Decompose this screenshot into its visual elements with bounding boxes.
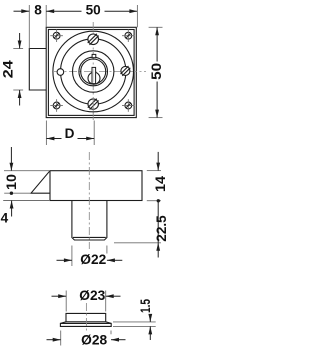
svg-text:Ø23: Ø23	[79, 288, 105, 303]
dimension 1.5 (bottom right)	[113, 299, 156, 340]
svg-text:Ø28: Ø28	[81, 332, 107, 347]
top view: lock case outer outline	[46, 27, 136, 117]
flange circle	[60, 39, 125, 104]
svg-text:8: 8	[34, 2, 42, 17]
middle view: cylinder body	[72, 201, 107, 241]
middle view: plate body	[50, 171, 142, 201]
bottom view: rosette base	[60, 323, 111, 326]
cylinder ring inner circle	[81, 59, 106, 84]
middle view: cylinder bottom inner line	[73, 236, 106, 238]
svg-text:10: 10	[4, 174, 19, 190]
screw hole bottom-right	[122, 99, 135, 112]
cylinder ring outer circle	[79, 57, 108, 86]
svg-text:22.5: 22.5	[154, 215, 167, 242]
screw hole top-center	[88, 34, 99, 45]
screw hole right-center	[121, 66, 131, 76]
svg-text:14: 14	[153, 176, 167, 192]
bottom view: rosette bottom edge line	[66, 321, 106, 323]
side strip (8 mm flange)	[29, 49, 46, 91]
top notch rectangle	[92, 54, 96, 57]
cover plate circle	[53, 31, 134, 112]
dimension 50 (top)	[46, 2, 137, 27]
dimension Ø28 (bottom)	[47, 331, 126, 348]
middle view: wedge (latch nose)	[31, 171, 50, 194]
dimension Ø23 (bottom view top)	[52, 288, 121, 311]
svg-text:4: 4	[1, 210, 9, 225]
keyhole slot rectangle	[92, 67, 96, 83]
dimension 8 (top left)	[14, 2, 47, 48]
svg-text:D: D	[65, 126, 75, 141]
middle view: vertical centerline	[88, 152, 90, 249]
top view: lock case inner outline	[48, 30, 134, 116]
keyway circle	[88, 72, 100, 84]
bottom view: vertical centerline	[85, 303, 87, 331]
dimension Ø22 (below cylinder)	[57, 246, 123, 268]
svg-text:1.5: 1.5	[138, 299, 153, 313]
svg-text:50: 50	[86, 2, 101, 17]
bottom view: rosette cylinder	[66, 313, 106, 321]
svg-text:50: 50	[149, 63, 164, 80]
bottom view: rosette cone flare	[60, 322, 111, 324]
dimension 22.5 (middle right lower)	[114, 201, 169, 258]
small hole left-center	[57, 69, 64, 76]
svg-text:Ø22: Ø22	[80, 252, 106, 267]
dimension 10 (middle left)	[4, 147, 50, 195]
cylinder recess circle	[73, 51, 114, 92]
screw hole bottom-center	[88, 98, 99, 111]
screw hole top-left	[50, 29, 63, 42]
dimension 14 (middle right)	[147, 152, 168, 203]
dimension 4 (middle left lower)	[1, 201, 50, 226]
dimension 50 (right)	[149, 27, 164, 117]
dimension D (bottom of top view)	[46, 121, 94, 146]
vertical centerline	[92, 22, 94, 122]
dimension 24 (left)	[1, 33, 23, 106]
svg-text:24: 24	[1, 60, 16, 79]
screw hole top-right	[122, 29, 135, 42]
screw hole bottom-left	[50, 99, 63, 112]
horizontal centerline	[54, 71, 146, 73]
